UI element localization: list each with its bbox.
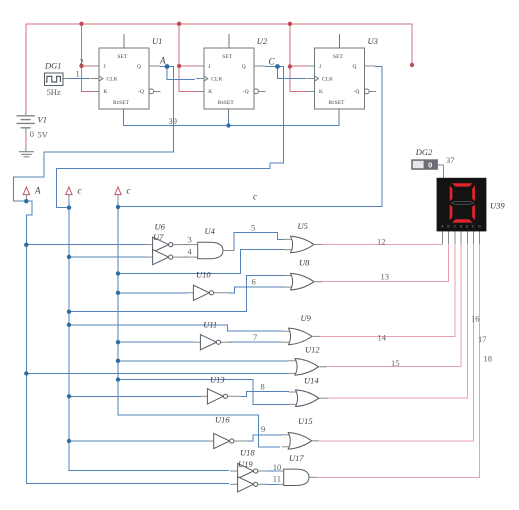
flip-flop U1 — [91, 34, 161, 118]
wire DG1 clock to U1 CLK — [66, 78, 90, 80]
svg-text:U13: U13 — [210, 374, 225, 384]
wire net14 U9 to display C — [318, 243, 455, 336]
node dot c-U16 — [67, 439, 71, 443]
svg-text:c: c — [127, 186, 131, 196]
svg-text:-Q: -Q — [243, 89, 249, 95]
node dot J U2 — [177, 64, 181, 68]
wire U16 output to U15 upper — [247, 435, 282, 441]
inverter U6 — [146, 237, 198, 252]
wire feed U8 upper from c bus — [69, 276, 284, 312]
wire c bus (x69) — [69, 202, 229, 471]
svg-text:U17: U17 — [289, 453, 304, 463]
node dot c-U13 — [67, 394, 71, 398]
node dot c-U9 — [67, 323, 71, 327]
svg-text:2: 2 — [80, 57, 84, 67]
node dot reset U2 — [226, 123, 230, 127]
node dot connector c2 — [116, 205, 120, 209]
svg-text:10: 10 — [273, 462, 282, 472]
segment G dark — [451, 202, 473, 205]
ground — [19, 152, 34, 157]
svg-text:U1: U1 — [152, 36, 162, 46]
node dot A-U12 — [24, 371, 28, 375]
and-gate U17 — [277, 469, 317, 485]
svg-text:U12: U12 — [305, 344, 320, 354]
wire U19 output to U17 lower — [266, 483, 277, 485]
svg-text:C: C — [269, 57, 276, 67]
svg-text:K: K — [104, 89, 108, 95]
connector c1 — [66, 187, 72, 202]
WIRES-PINK — [315, 165, 480, 478]
svg-text:15: 15 — [391, 358, 400, 368]
svg-text:CLK: CLK — [322, 77, 333, 83]
segment F — [450, 185, 453, 201]
or-gate U9 — [282, 328, 320, 345]
or-gate U8 — [284, 273, 322, 290]
wire DG2 top pin down to display — [437, 165, 443, 178]
svg-text:U11: U11 — [203, 319, 217, 329]
node dot c2-U10 — [116, 291, 120, 295]
svg-text:F: F — [472, 225, 474, 229]
svg-text:-Q: -Q — [354, 89, 360, 95]
svg-text:8: 8 — [261, 381, 265, 391]
svg-text:U10: U10 — [196, 269, 211, 279]
svg-text:37: 37 — [446, 155, 455, 165]
svg-text:DG2: DG2 — [415, 147, 433, 157]
svg-text:U18: U18 — [240, 447, 255, 457]
svg-text:9: 9 — [261, 424, 265, 434]
wire U13 output to U14 upper — [240, 391, 289, 396]
wire net15 U12 to display D — [325, 243, 461, 367]
wire feed U9 upper from c bus — [69, 325, 282, 331]
inverter U18 — [230, 463, 267, 478]
svg-text:RESET: RESET — [218, 100, 235, 106]
clock source DG1 — [44, 73, 63, 85]
svg-text:SET: SET — [333, 54, 343, 60]
node dot A-U6 — [24, 243, 28, 247]
svg-text:U15: U15 — [298, 416, 313, 426]
svg-text:E: E — [466, 225, 468, 229]
segment C — [472, 205, 475, 221]
wire display pin stub B — [448, 231, 450, 244]
wire node C to U3 CLK — [265, 67, 306, 79]
svg-text:U16: U16 — [215, 414, 230, 424]
svg-text:RESET: RESET — [113, 100, 130, 106]
segment A — [452, 183, 473, 186]
svg-text:18: 18 — [484, 353, 493, 363]
wire net37 DG2 tick — [441, 164, 444, 166]
svg-text:V1: V1 — [38, 114, 47, 124]
svg-text:J: J — [104, 64, 106, 70]
GRAY-STUBS — [63, 79, 480, 244]
svg-text:A: A — [159, 56, 166, 66]
wire node C long run to connector c1 — [57, 67, 284, 208]
node dot c-U7 — [67, 255, 71, 259]
svg-text:J: J — [319, 64, 321, 70]
segment B — [472, 185, 475, 201]
wire J feed U2 — [179, 65, 204, 67]
svg-text:5V: 5V — [38, 129, 49, 139]
svg-text:5: 5 — [251, 222, 255, 232]
wire net12 U5 to display A — [320, 243, 443, 244]
or-gate U12 — [288, 359, 327, 376]
inverter U16 — [207, 433, 247, 448]
wire DG1 pin stub — [63, 78, 68, 80]
wire U7 out tick — [183, 256, 188, 258]
wire U6 out tick — [183, 244, 188, 246]
svg-text:SET: SET — [118, 54, 128, 60]
svg-text:4: 4 — [188, 246, 193, 256]
WIRES-BLUE — [13, 67, 382, 485]
connector A — [23, 187, 29, 200]
wire node A long run to connector A — [13, 67, 173, 202]
svg-text:0: 0 — [30, 129, 34, 139]
wire display pin stub G — [479, 231, 481, 244]
wire feed U7 from c bus — [69, 256, 146, 258]
wire J/K drop U2 — [179, 24, 204, 92]
wire J feed U1 — [82, 65, 100, 67]
svg-text:5Hz: 5Hz — [47, 87, 61, 97]
svg-text:14: 14 — [378, 332, 387, 342]
svg-text:U9: U9 — [301, 313, 312, 323]
inverter U19 — [230, 477, 267, 492]
svg-text:17: 17 — [478, 334, 487, 344]
svg-text:U39: U39 — [490, 200, 505, 210]
svg-text:11: 11 — [273, 473, 281, 483]
JUNCTION-DOTS — [24, 22, 414, 444]
wire feed U13 from c bus — [69, 395, 201, 397]
wire feed U10 from c2 bus — [118, 292, 187, 294]
svg-text:U2: U2 — [257, 36, 268, 46]
svg-text:J: J — [208, 64, 210, 70]
and-gate U4 — [198, 242, 235, 258]
node dot c2-U14 — [116, 377, 120, 381]
svg-text:SET: SET — [222, 54, 232, 60]
inverter U13 — [201, 389, 241, 404]
wire connector A jog down — [26, 201, 229, 484]
segment E — [450, 205, 453, 221]
inverter U7 — [146, 250, 198, 265]
svg-text:Q: Q — [353, 64, 357, 70]
svg-text:U7: U7 — [153, 232, 164, 242]
segment D — [452, 219, 473, 222]
svg-text:U19: U19 — [238, 459, 253, 469]
svg-text:7: 7 — [253, 332, 257, 342]
wire battery minus to ground — [25, 133, 27, 147]
svg-text:-Q: -Q — [138, 89, 144, 95]
svg-text:Q: Q — [242, 64, 246, 70]
wire feed U12 lower from A bus — [26, 372, 288, 374]
inverter U11 — [194, 335, 233, 350]
node dot J U1 — [79, 64, 83, 68]
svg-text:6: 6 — [252, 276, 256, 286]
or-gate U14 — [289, 390, 328, 407]
wire feed U14 lower from c2 bus — [118, 380, 289, 405]
wire U10 output to U8 lower — [228, 287, 284, 293]
svg-text:U4: U4 — [205, 226, 216, 236]
svg-text:B: B — [448, 225, 450, 229]
battery V1 — [17, 110, 35, 151]
wire display pin stub C — [454, 231, 456, 244]
WIRES-POWER — [26, 24, 412, 147]
inverter U10 — [187, 285, 229, 300]
svg-text:3: 3 — [188, 234, 192, 244]
wire U2 reset stub join — [228, 118, 230, 126]
wire display pin stub F — [473, 231, 475, 244]
wire J/K drop U1 — [82, 24, 100, 92]
svg-text:U6: U6 — [155, 222, 166, 232]
node dot c2-U12 — [116, 359, 120, 363]
svg-text:c: c — [253, 192, 257, 202]
wire net17 U15 to display F — [318, 243, 474, 441]
wire display pin stub D — [460, 231, 462, 244]
node dot rail U1 — [79, 22, 83, 26]
svg-text:U5: U5 — [298, 221, 308, 231]
svg-text:12: 12 — [377, 236, 386, 246]
wire display pin stub A — [442, 231, 444, 244]
wire U4 output to U5 upper — [234, 232, 284, 250]
svg-text:CLK: CLK — [107, 77, 118, 83]
wire reset net — [123, 118, 339, 126]
or-gate U15 — [282, 433, 319, 450]
flip-flop U3 — [307, 34, 377, 118]
node dot c2-U11 — [116, 340, 120, 344]
node dot A — [165, 64, 170, 69]
wire U11 output to U9 lower — [227, 341, 282, 343]
wire feed U5 lower from c2 bus — [118, 250, 284, 274]
or-gate U5 — [284, 236, 322, 253]
svg-text:16: 16 — [471, 313, 480, 323]
wire node A to U2 CLK — [160, 67, 195, 80]
node dot rail U2 — [177, 22, 181, 26]
wire VCC rail — [26, 24, 412, 111]
svg-text:DG1: DG1 — [44, 60, 62, 70]
svg-text:K: K — [319, 89, 323, 95]
wire net16 U14 to display E — [327, 243, 467, 398]
wire net18 U17 to display G — [315, 243, 480, 477]
node dot connector A — [24, 199, 28, 203]
svg-text:RESET: RESET — [329, 100, 346, 106]
wire feed U16 from c bus — [69, 440, 207, 442]
wire J feed U3 — [290, 65, 315, 67]
wire feed U6 from A bus — [26, 244, 146, 246]
wire c2 bus (x118) — [118, 202, 280, 447]
svg-text:39: 39 — [169, 116, 178, 126]
wire feed U12 upper from c2 bus — [118, 360, 288, 362]
wire display pin stub E — [466, 231, 468, 244]
svg-text:1: 1 — [76, 69, 80, 79]
wire net13 U8 to display B — [320, 243, 449, 282]
wire feed U11 from c2 bus — [118, 341, 194, 343]
svg-text:U8: U8 — [299, 257, 310, 267]
connector c2 — [115, 187, 121, 202]
svg-text:A: A — [34, 186, 41, 196]
node dot C — [275, 64, 280, 69]
svg-text:U3: U3 — [368, 36, 378, 46]
node dot connector c1 — [67, 205, 71, 209]
svg-text:K: K — [208, 89, 212, 95]
flip-flop U2 — [196, 34, 265, 118]
svg-text:0: 0 — [428, 161, 432, 170]
node dot c2-U5 — [116, 271, 120, 275]
node dot rail U3 — [288, 22, 292, 26]
svg-text:U14: U14 — [304, 375, 319, 385]
svg-text:CLK: CLK — [211, 77, 222, 83]
node dot J U3 — [288, 64, 292, 68]
svg-text:Q: Q — [137, 64, 141, 70]
wire U18 output to U17 upper — [266, 470, 277, 472]
node dot rail end — [410, 63, 414, 67]
wire J/K drop U3 — [290, 24, 315, 92]
node dot c-U8 — [67, 310, 71, 314]
seven-segment display U39 — [437, 178, 487, 232]
indicator DG2 — [412, 160, 441, 170]
svg-text:13: 13 — [381, 271, 390, 281]
svg-text:c: c — [78, 186, 82, 196]
wire U3 Q to c2 connector bus — [118, 67, 382, 207]
